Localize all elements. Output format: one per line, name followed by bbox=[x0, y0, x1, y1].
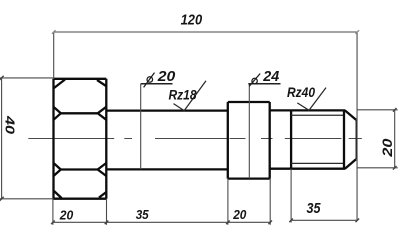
dimension 120 right extension through tip bbox=[356, 32, 358, 220]
svg-text:20: 20 bbox=[232, 207, 247, 222]
tip chamfer bottom bbox=[345, 159, 356, 169]
hex head chamfer top-left bbox=[54, 80, 65, 89]
dimension 40 bottom extension bbox=[0, 198, 53, 200]
centerline bbox=[28, 138, 362, 140]
svg-text:Rz18: Rz18 bbox=[169, 88, 197, 103]
extension head right bbox=[106, 199, 108, 225]
thread start line bbox=[290, 110, 292, 168]
tick thread right bbox=[356, 219, 360, 223]
tick collar left bbox=[226, 221, 230, 225]
thread end line bbox=[343, 110, 345, 168]
roughness symbol Rz40 bbox=[297, 88, 326, 111]
shank and thread outer diameter bbox=[270, 110, 346, 168]
dimension 40 line bbox=[1, 78, 3, 199]
hex head chamfer bottom-right bbox=[99, 192, 106, 197]
svg-text:20: 20 bbox=[157, 68, 176, 85]
hex head upper flat notch left bbox=[54, 107, 61, 120]
hex head lower flat notch right bbox=[98, 163, 107, 176]
hex head chamfer top-right bbox=[97, 80, 106, 86]
hex head lower flat line bbox=[61, 168, 98, 170]
diameter 20 callout leader vertical bbox=[140, 84, 142, 170]
right dimension 20 top extension bbox=[358, 109, 398, 111]
dimension 120 tick left bbox=[52, 30, 56, 34]
hex head upper flat line bbox=[61, 112, 98, 114]
hex head chamfer bottom-left bbox=[54, 191, 62, 198]
thread minor diameter lines bbox=[291, 115, 344, 163]
svg-text:40: 40 bbox=[2, 115, 17, 135]
svg-text:35: 35 bbox=[136, 207, 150, 222]
bottom dimension line left group bbox=[53, 221, 271, 223]
svg-text:120: 120 bbox=[181, 12, 203, 29]
tick 20 head left bbox=[51, 221, 55, 225]
diameter 24 callout leader vertical bbox=[248, 84, 250, 179]
tick 20 head right bbox=[105, 221, 109, 225]
bottom dimension line thread bbox=[291, 219, 357, 221]
tick collar right bbox=[268, 221, 272, 225]
tip end face bbox=[356, 120, 358, 160]
tip chamfer top bbox=[345, 110, 356, 119]
hex head upper flat notch right bbox=[98, 107, 107, 120]
diameter 24 symbol bbox=[249, 74, 260, 87]
dimension 40 tick bottom bbox=[0, 197, 4, 202]
diameter 20 callout shelf bbox=[141, 83, 173, 85]
svg-text:24: 24 bbox=[262, 68, 280, 85]
extension thread start bbox=[290, 169, 292, 223]
shaft outline bbox=[106, 111, 228, 170]
dimension 120 left extension bbox=[53, 32, 55, 79]
dimension 120 tick right bbox=[356, 30, 360, 34]
right dimension tick top bbox=[393, 108, 397, 112]
tick thread left bbox=[289, 219, 293, 223]
right dimension tick bottom bbox=[393, 166, 397, 170]
extension collar left bbox=[227, 179, 229, 225]
svg-text:20: 20 bbox=[59, 208, 74, 223]
dimension 120 line bbox=[54, 31, 357, 33]
right dimension 20 line bbox=[394, 110, 396, 168]
diameter 24 callout shelf bbox=[248, 83, 280, 85]
hex head lower flat notch left bbox=[54, 163, 61, 176]
extension head left bbox=[52, 199, 54, 225]
diameter 20 symbol bbox=[144, 73, 155, 88]
right dimension 20 bottom extension bbox=[358, 167, 398, 169]
collar outline bbox=[228, 102, 270, 179]
svg-text:35: 35 bbox=[307, 200, 322, 217]
extension collar right bbox=[269, 179, 271, 225]
dimension 40 top extension bbox=[0, 77, 54, 79]
svg-text:20: 20 bbox=[380, 138, 395, 158]
dimension 40 tick top bbox=[0, 76, 4, 81]
svg-text:Rz40: Rz40 bbox=[287, 84, 315, 100]
roughness symbol Rz18 bbox=[174, 81, 207, 111]
hex head bbox=[54, 79, 107, 199]
